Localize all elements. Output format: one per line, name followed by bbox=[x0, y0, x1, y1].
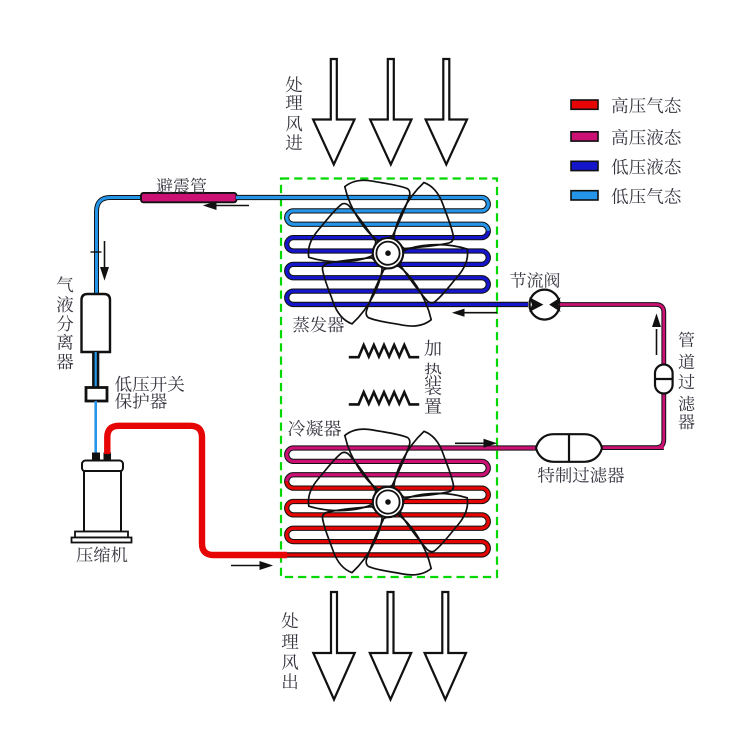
legend swatch high-pressure-liquid bbox=[571, 132, 598, 141]
gas-liquid separator 气液分离器 bbox=[82, 294, 111, 352]
evaporator coil low-pressure liquid part bbox=[287, 231, 528, 305]
evaporator coil outline bbox=[236, 198, 528, 305]
bottom air-out arrow 1 bbox=[313, 592, 354, 700]
condenser coil high-pressure liquid part bbox=[287, 448, 536, 481]
heater element 1 bbox=[349, 345, 419, 357]
air-in 处理风进 bbox=[286, 76, 303, 150]
label 低压开关 bbox=[115, 376, 184, 392]
legend 低压液态 bbox=[612, 158, 681, 174]
label 避震管 bbox=[156, 178, 206, 194]
bottom air-out arrow 2 bbox=[370, 592, 411, 700]
wire suction line: shock tube to separator bbox=[97, 198, 142, 296]
arrow left on suction pipe bbox=[205, 202, 250, 210]
label 加热装置 bbox=[424, 340, 441, 414]
top air-in arrow 1 bbox=[313, 59, 354, 165]
special filter 特制过滤器 bbox=[536, 434, 602, 462]
label 特制过滤器 bbox=[538, 467, 624, 483]
throttle valve 节流阀 bbox=[530, 290, 560, 320]
label 冷凝器 bbox=[288, 420, 341, 437]
legend swatch high-pressure-gas bbox=[571, 100, 598, 109]
shock absorber tube 避震管 bbox=[141, 193, 237, 202]
arrow up beside pipe filter line bbox=[653, 315, 661, 355]
tick on pipe bbox=[91, 251, 102, 253]
fan blades bbox=[303, 428, 472, 576]
fan blades bbox=[303, 179, 472, 327]
arrow down on vertical pipe bbox=[101, 241, 109, 279]
label 保护器 bbox=[115, 393, 167, 409]
wire switch to compressor bbox=[94, 401, 97, 455]
label 气液分离器 bbox=[57, 276, 74, 369]
legend swatch low-pressure-liquid bbox=[571, 161, 598, 170]
low pressure switch 低压开关保护器 bbox=[86, 388, 107, 402]
legend swatch low-pressure-gas bbox=[571, 191, 598, 200]
condenser coil outline bbox=[285, 448, 536, 555]
legend 低压气态 bbox=[612, 188, 681, 204]
fan hub bbox=[373, 487, 403, 517]
bottom air-out arrow 3 bbox=[425, 592, 466, 700]
label 管道过滤器 bbox=[678, 332, 694, 430]
wire separator to switch bbox=[92, 352, 99, 388]
arrow right below discharge pipe bbox=[231, 562, 272, 570]
legend 高压液态 bbox=[612, 129, 681, 145]
duct frame (green dashed) bbox=[281, 179, 497, 578]
condenser coil high-pressure gas part bbox=[285, 481, 488, 555]
wire discharge line (compressor to condenser, red) bbox=[107, 426, 287, 555]
arrow left below evap outlet bbox=[454, 309, 498, 316]
compressor 压缩机 bbox=[92, 453, 100, 463]
label 蒸发器 bbox=[293, 316, 344, 332]
pipe filter 管道过滤器 bbox=[655, 365, 673, 394]
wire high-pressure liquid line (valve to filters) bbox=[560, 305, 664, 448]
legend 高压气态 bbox=[612, 97, 681, 113]
arrow right on condenser outlet bbox=[455, 440, 496, 448]
heater element 2 bbox=[349, 392, 419, 404]
top air-in arrow 2 bbox=[370, 59, 411, 165]
air-out 处理风出 bbox=[282, 612, 299, 689]
label 压缩机 bbox=[77, 546, 128, 562]
top air-in arrow 3 bbox=[426, 59, 467, 165]
label 节流阀 bbox=[510, 272, 559, 288]
fan hub bbox=[373, 238, 403, 268]
evaporator coil low-pressure gas part bbox=[236, 198, 488, 231]
